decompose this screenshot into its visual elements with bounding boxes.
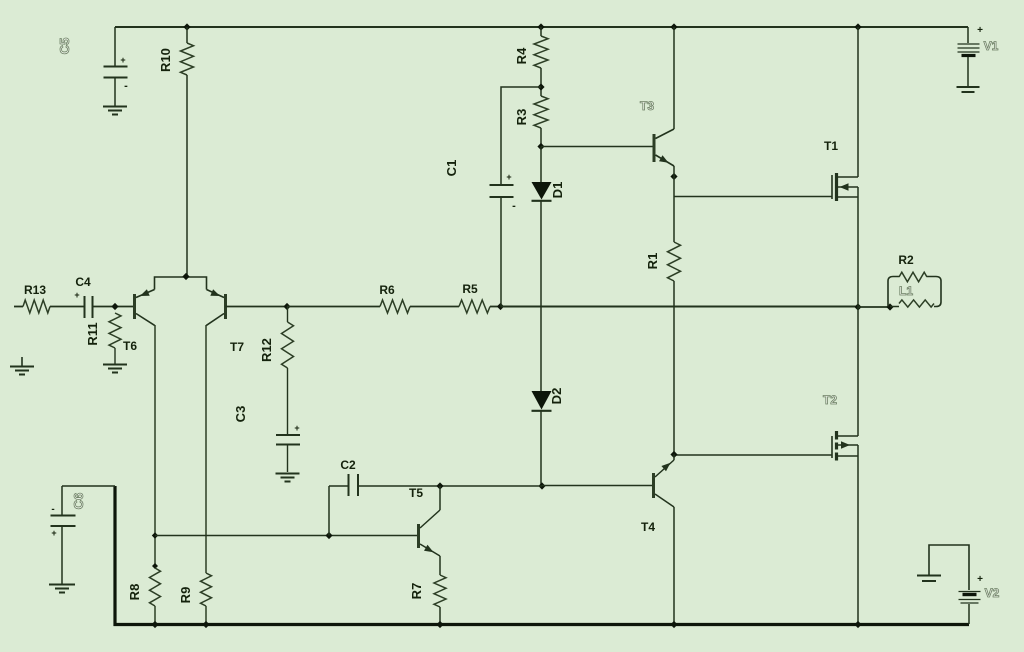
resistor R3 — [534, 96, 548, 128]
node T3 base junction — [537, 143, 544, 150]
svg-text:R1: R1 — [645, 253, 660, 270]
wire node to R6 — [287, 306, 380, 308]
svg-text:C1: C1 — [444, 160, 459, 177]
svg-text:-: - — [124, 80, 128, 92]
transistor T6 — [135, 289, 155, 325]
svg-text:-: - — [512, 200, 516, 212]
svg-text:R5: R5 — [462, 282, 478, 296]
svg-text:-: - — [51, 504, 54, 515]
svg-text:C3: C3 — [233, 406, 248, 423]
label C5 — [57, 38, 72, 55]
resistor R1 — [668, 242, 681, 281]
wire R12 top lead — [287, 307, 289, 323]
capacitor C4 — [74, 290, 92, 318]
resistor R2 — [899, 272, 927, 282]
svg-text:C4: C4 — [75, 275, 91, 289]
node C1 bottom junction — [497, 303, 504, 310]
wire R10 to diff pair — [186, 75, 188, 276]
svg-text:C2: C2 — [340, 458, 356, 472]
resistor R11 — [109, 313, 121, 348]
resistor R6 — [380, 300, 410, 313]
transistor T4 — [654, 455, 675, 508]
capacitor C3 — [276, 423, 300, 472]
ground under C6 — [49, 585, 75, 593]
node top rail R4 tap — [537, 23, 544, 30]
resistor R12 — [282, 322, 294, 368]
wire R4 top lead — [540, 27, 542, 36]
battery V2 — [959, 574, 984, 603]
svg-text:R12: R12 — [259, 338, 274, 362]
wire T2 source — [857, 445, 859, 624]
resistor R10 — [181, 43, 194, 75]
node T4 emitter bottom — [670, 621, 677, 628]
wire C1 top jog — [501, 87, 541, 185]
wire D2 to bias line — [540, 411, 542, 486]
node R7 bottom — [436, 621, 443, 628]
svg-text:T1: T1 — [824, 139, 838, 153]
transistor T2 (P-MOSFET) — [832, 431, 858, 461]
wire input stub — [14, 306, 23, 308]
svg-text:T6: T6 — [123, 339, 137, 353]
capacitor C6 — [51, 486, 76, 584]
transistor T1 (N-MOSFET) — [832, 173, 858, 201]
node R9 bottom — [202, 621, 209, 628]
svg-text:L1: L1 — [899, 284, 913, 298]
wire T1 source — [857, 187, 859, 307]
wire T2 gate line — [674, 454, 832, 456]
ground under V1 — [957, 87, 980, 92]
wire C5 lead — [114, 27, 116, 66]
label R11 — [85, 322, 100, 345]
wire T3 emitter to R1 — [673, 166, 675, 242]
wire R11 to ground — [114, 348, 116, 364]
resistor R4 — [534, 36, 548, 68]
node R8 top — [152, 563, 158, 569]
label T3 — [640, 99, 654, 113]
wire R8 to rail — [154, 606, 156, 624]
wire R7 to rail — [439, 607, 441, 624]
label R1 — [645, 253, 660, 270]
wire T5 emitter — [439, 556, 441, 575]
svg-text:V2: V2 — [985, 586, 1000, 600]
wire V1 bottom lead — [967, 57, 969, 86]
node T5 base line tap — [152, 532, 158, 538]
svg-text:R8: R8 — [127, 584, 142, 601]
svg-text:T3: T3 — [640, 99, 654, 113]
wire VAS mid line — [501, 306, 859, 308]
ground V2 reference — [917, 576, 941, 582]
svg-text:D2: D2 — [549, 388, 564, 405]
label C6 — [71, 493, 86, 510]
label T4 — [641, 520, 655, 534]
wire T3 collector — [673, 27, 675, 129]
svg-text:R6: R6 — [379, 283, 395, 297]
transistor T3 — [654, 129, 674, 166]
label V1 — [984, 39, 999, 53]
label T6 — [123, 339, 137, 353]
label R3 — [514, 109, 529, 126]
wire C6 riser — [113, 486, 116, 626]
wire C1 bottom lead — [500, 197, 502, 307]
svg-text:+: + — [977, 574, 983, 585]
wire T1 gate line — [674, 196, 832, 198]
resistor R8 — [150, 568, 161, 606]
svg-text:+: + — [51, 528, 56, 538]
node top rail T1 drain tap — [854, 23, 861, 30]
wire R4 to R3 — [540, 68, 542, 96]
resistor R5 — [459, 300, 490, 313]
svg-text:D1: D1 — [550, 182, 565, 199]
wire T2 drain — [857, 307, 859, 436]
ground under R11 — [103, 365, 127, 373]
label R7 — [409, 583, 424, 600]
wire D1 to D2 — [540, 201, 542, 391]
battery V1 — [958, 25, 984, 56]
wire output to load — [858, 306, 890, 308]
wire R9 to rail — [205, 606, 207, 624]
wire T6 collector drop — [154, 325, 156, 568]
diode D2 — [532, 391, 552, 411]
wire R10 top lead — [186, 27, 188, 43]
label R12 — [259, 338, 274, 362]
node R12 tap — [283, 303, 290, 310]
capacitor C5 — [104, 55, 129, 106]
label R13 — [24, 283, 46, 297]
svg-text:R11: R11 — [85, 322, 100, 345]
wire T1 drain — [857, 27, 859, 177]
node T4 collector junction — [670, 451, 677, 458]
capacitor C2 — [349, 474, 359, 496]
wire R3 to T3 base node — [540, 128, 542, 147]
wire diff emitter rail — [155, 277, 207, 290]
wire V1 top lead — [967, 27, 969, 43]
label C1 — [444, 160, 459, 177]
label R10 — [158, 48, 173, 72]
svg-text:+: + — [977, 25, 983, 36]
label T7 — [230, 340, 244, 354]
label R9 — [178, 587, 193, 604]
ground under C3 — [276, 474, 300, 482]
node T2 source bottom — [854, 621, 861, 628]
transistor T5 — [419, 510, 441, 556]
svg-text:C5: C5 — [57, 38, 72, 55]
wire T3 base — [541, 146, 653, 148]
label D1 — [550, 182, 565, 199]
svg-text:T5: T5 — [409, 486, 423, 500]
svg-text:+: + — [506, 172, 511, 182]
svg-text:R3: R3 — [514, 109, 529, 126]
wire bracket to C2 — [329, 485, 348, 487]
node load left junction — [886, 303, 893, 310]
node T5 collector junction — [436, 482, 443, 489]
svg-text:T4: T4 — [641, 520, 655, 534]
wire T5 collector — [439, 486, 441, 510]
wire R6 to R5 — [410, 306, 459, 308]
wire C2 bracket — [328, 486, 330, 536]
wire C6 top lead — [62, 485, 115, 487]
label T2 — [823, 393, 837, 407]
label C4 — [75, 275, 91, 289]
wire T7 base — [226, 306, 288, 308]
wire T7 collector drop — [205, 325, 207, 573]
svg-text:T7: T7 — [230, 340, 244, 354]
capacitor C1 — [490, 172, 517, 212]
label L1 — [899, 284, 913, 298]
node T3 emitter junction — [670, 173, 677, 180]
svg-text:C6: C6 — [71, 493, 86, 510]
label C2 — [340, 458, 356, 472]
label R5 — [462, 282, 478, 296]
wire C4 to node — [93, 306, 135, 308]
wire D1 anode lead — [540, 147, 542, 183]
wire V2 bottom lead — [968, 604, 970, 624]
wire T4 base — [542, 485, 653, 487]
wire T4 emitter drop — [673, 507, 675, 624]
wire T5 base line — [155, 535, 418, 537]
label R2 — [898, 253, 914, 267]
node top rail R10 tap — [183, 23, 190, 30]
svg-text:R2: R2 — [898, 253, 914, 267]
svg-text:R10: R10 — [158, 48, 173, 72]
node R8 bottom — [151, 621, 158, 628]
label T5 — [409, 486, 423, 500]
wire R13 to C4 — [50, 306, 84, 308]
svg-text:+: + — [294, 423, 299, 433]
svg-text:T2: T2 — [823, 393, 837, 407]
svg-text:R7: R7 — [409, 583, 424, 600]
ground input reference — [10, 357, 34, 375]
label R6 — [379, 283, 395, 297]
diode D1 — [532, 182, 552, 201]
node output junction — [854, 303, 861, 310]
label V2 — [985, 586, 1000, 600]
svg-text:+: + — [74, 290, 79, 300]
wire bottom negative rail — [114, 623, 970, 626]
wire R1 to T4 node — [673, 281, 675, 455]
node top rail T3 collector tap — [670, 23, 677, 30]
transistor T7 — [206, 289, 225, 325]
svg-text:V1: V1 — [984, 39, 999, 53]
resistor R9 — [201, 573, 212, 606]
node input base junction — [111, 303, 118, 310]
svg-text:R9: R9 — [178, 587, 193, 604]
wire load network frame — [888, 277, 941, 307]
svg-text:R13: R13 — [24, 283, 46, 297]
label T1 — [824, 139, 838, 153]
wire C2 to T4 base line — [358, 485, 542, 487]
label C3 — [233, 406, 248, 423]
wire R5 to C1 node — [490, 306, 500, 308]
label R8 — [127, 584, 142, 601]
inductor L1 — [899, 300, 934, 307]
ground under C5 — [103, 107, 127, 115]
svg-text:R4: R4 — [514, 47, 529, 64]
resistor R13 — [23, 300, 50, 313]
node diff emitter junction — [182, 273, 189, 280]
resistor R7 — [434, 575, 446, 607]
node C1 tap — [537, 83, 544, 90]
label R4 — [514, 47, 529, 64]
node bias line junction — [538, 482, 545, 489]
wire V2 ground jog — [929, 545, 969, 590]
label D2 — [549, 388, 564, 405]
wire top positive rail — [115, 26, 968, 28]
node C2 bracket junction — [325, 532, 332, 539]
svg-text:+: + — [120, 55, 125, 65]
wire R12 to C3 — [287, 368, 289, 435]
